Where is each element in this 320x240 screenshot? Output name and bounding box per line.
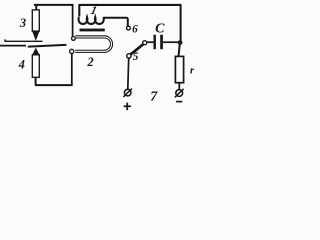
core bar of coil: [80, 29, 105, 32]
svg-text:6: 6: [132, 23, 138, 35]
wire: top rail (right section): [79, 4, 182, 6]
capacitor C: [147, 35, 179, 50]
junction dot: [178, 40, 183, 45]
svg-text:r: r: [190, 65, 195, 77]
contact 6: [126, 26, 130, 30]
wire from coil to contact 6: [103, 18, 127, 26]
svg-text:7: 7: [150, 90, 158, 105]
wire: bottom-left rail: [35, 84, 73, 86]
svg-text:1: 1: [89, 4, 98, 17]
svg-text:5: 5: [133, 51, 139, 63]
resistor r: [175, 56, 183, 82]
electrode 4: [32, 48, 39, 77]
wire from switch pivot to + terminal: [127, 58, 130, 89]
contact strip lower-right: [29, 45, 66, 47]
svg-text:C: C: [155, 21, 165, 36]
battery - terminal: [175, 89, 184, 102]
induction coil 1 (scalloped winding): [79, 5, 104, 24]
wire to electrode 4 bottom: [35, 77, 37, 85]
electrode 3: [32, 10, 39, 40]
wire from resistor to - terminal: [178, 83, 180, 90]
svg-text:2: 2: [86, 55, 93, 69]
heater hairpin element 2 (hollow tube): [75, 37, 111, 51]
contact strip upper: [4, 39, 42, 41]
terminal node of heater (top): [72, 37, 76, 41]
contact strip lower-left: [0, 45, 26, 47]
wire from electrode 3 top: [35, 5, 37, 10]
terminal node of heater (bottom): [70, 49, 74, 53]
wire: left vertical to heater terminal: [72, 5, 74, 37]
wire: top-left rail: [34, 4, 74, 6]
switch blade 5: [127, 41, 147, 58]
svg-text:3: 3: [19, 16, 26, 30]
battery + terminal: [123, 89, 132, 111]
svg-text:4: 4: [18, 57, 25, 71]
wire: right vertical: [179, 5, 181, 57]
wire: left vertical down: [71, 54, 73, 86]
